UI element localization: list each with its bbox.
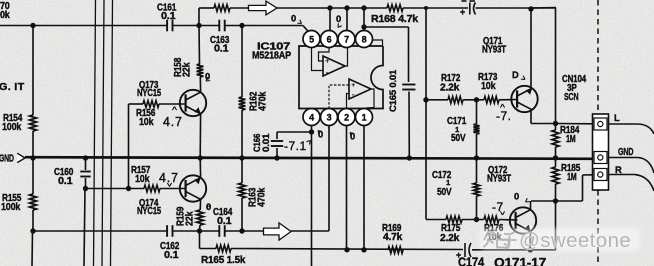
svg-text:0: 0 [514,191,519,202]
svg-text:470k: 470k [257,187,268,207]
svg-text:10k: 10k [135,174,150,185]
svg-text:2: 2 [344,112,349,122]
svg-text:4.7: 4.7 [163,115,183,129]
svg-text:0: 0 [291,13,296,24]
svg-text:NYC15: NYC15 [137,206,162,217]
svg-text:470k: 470k [258,91,269,111]
svg-text:NYC15: NYC15 [137,88,162,99]
svg-text:100k: 100k [2,122,22,133]
svg-text:4.7k: 4.7k [383,232,403,243]
svg-text:NY93T: NY93T [482,45,506,56]
svg-text:2.2k: 2.2k [440,233,460,244]
svg-text:@sweetone: @sweetone [519,229,631,252]
svg-text:5: 5 [309,34,314,44]
svg-text:0: 0 [205,71,210,82]
svg-text:-7.1: -7.1 [284,139,307,153]
svg-text:0.1: 0.1 [58,176,73,187]
svg-text:SCN: SCN [564,92,578,103]
svg-text:6: 6 [327,34,332,44]
svg-text:4: 4 [309,112,314,122]
svg-text:1M: 1M [566,134,576,145]
svg-text:R: R [615,164,622,175]
svg-text:50V: 50V [451,133,466,144]
svg-text:0.1: 0.1 [217,216,232,227]
svg-text:1: 1 [362,112,367,122]
svg-text:+: + [460,7,465,17]
svg-text:C174: C174 [458,256,484,266]
svg-text:7: 7 [344,34,349,44]
svg-text:0: 0 [336,13,341,24]
svg-text:NY93T: NY93T [487,174,511,185]
svg-text:-7: -7 [492,200,504,214]
svg-text:0.1: 0.1 [164,250,179,261]
svg-text:10k: 10k [481,81,496,92]
svg-text:M5218AP: M5218AP [252,51,291,62]
svg-text:L: L [614,112,620,123]
svg-text:D: D [512,69,519,80]
svg-text:Q171-17: Q171-17 [494,256,546,266]
svg-text:1M: 1M [567,172,577,183]
svg-text:-7.: -7. [496,109,512,123]
svg-text:GND: GND [0,154,14,165]
svg-text:2.2k: 2.2k [440,83,460,94]
svg-text:GND: GND [618,147,634,158]
svg-text:8: 8 [362,34,367,44]
svg-text:4.7: 4.7 [159,171,179,185]
svg-text:C165 0.01: C165 0.01 [388,69,399,112]
svg-text:100k: 100k [1,202,21,213]
svg-text:50V: 50V [437,187,452,198]
svg-text:3: 3 [327,112,332,122]
svg-text:0.1: 0.1 [161,11,176,22]
svg-text:10k: 10k [139,117,154,128]
svg-text:0.1: 0.1 [214,44,229,55]
svg-text:R165 1.5k: R165 1.5k [201,255,246,266]
svg-text:0.01: 0.01 [261,134,271,152]
svg-text:0k: 0k [0,10,10,21]
svg-text:22k: 22k [182,62,193,77]
svg-text:R168 4.7k: R168 4.7k [371,14,419,25]
svg-text:G. IT: G. IT [0,82,25,93]
svg-text:22k: 22k [185,211,196,226]
